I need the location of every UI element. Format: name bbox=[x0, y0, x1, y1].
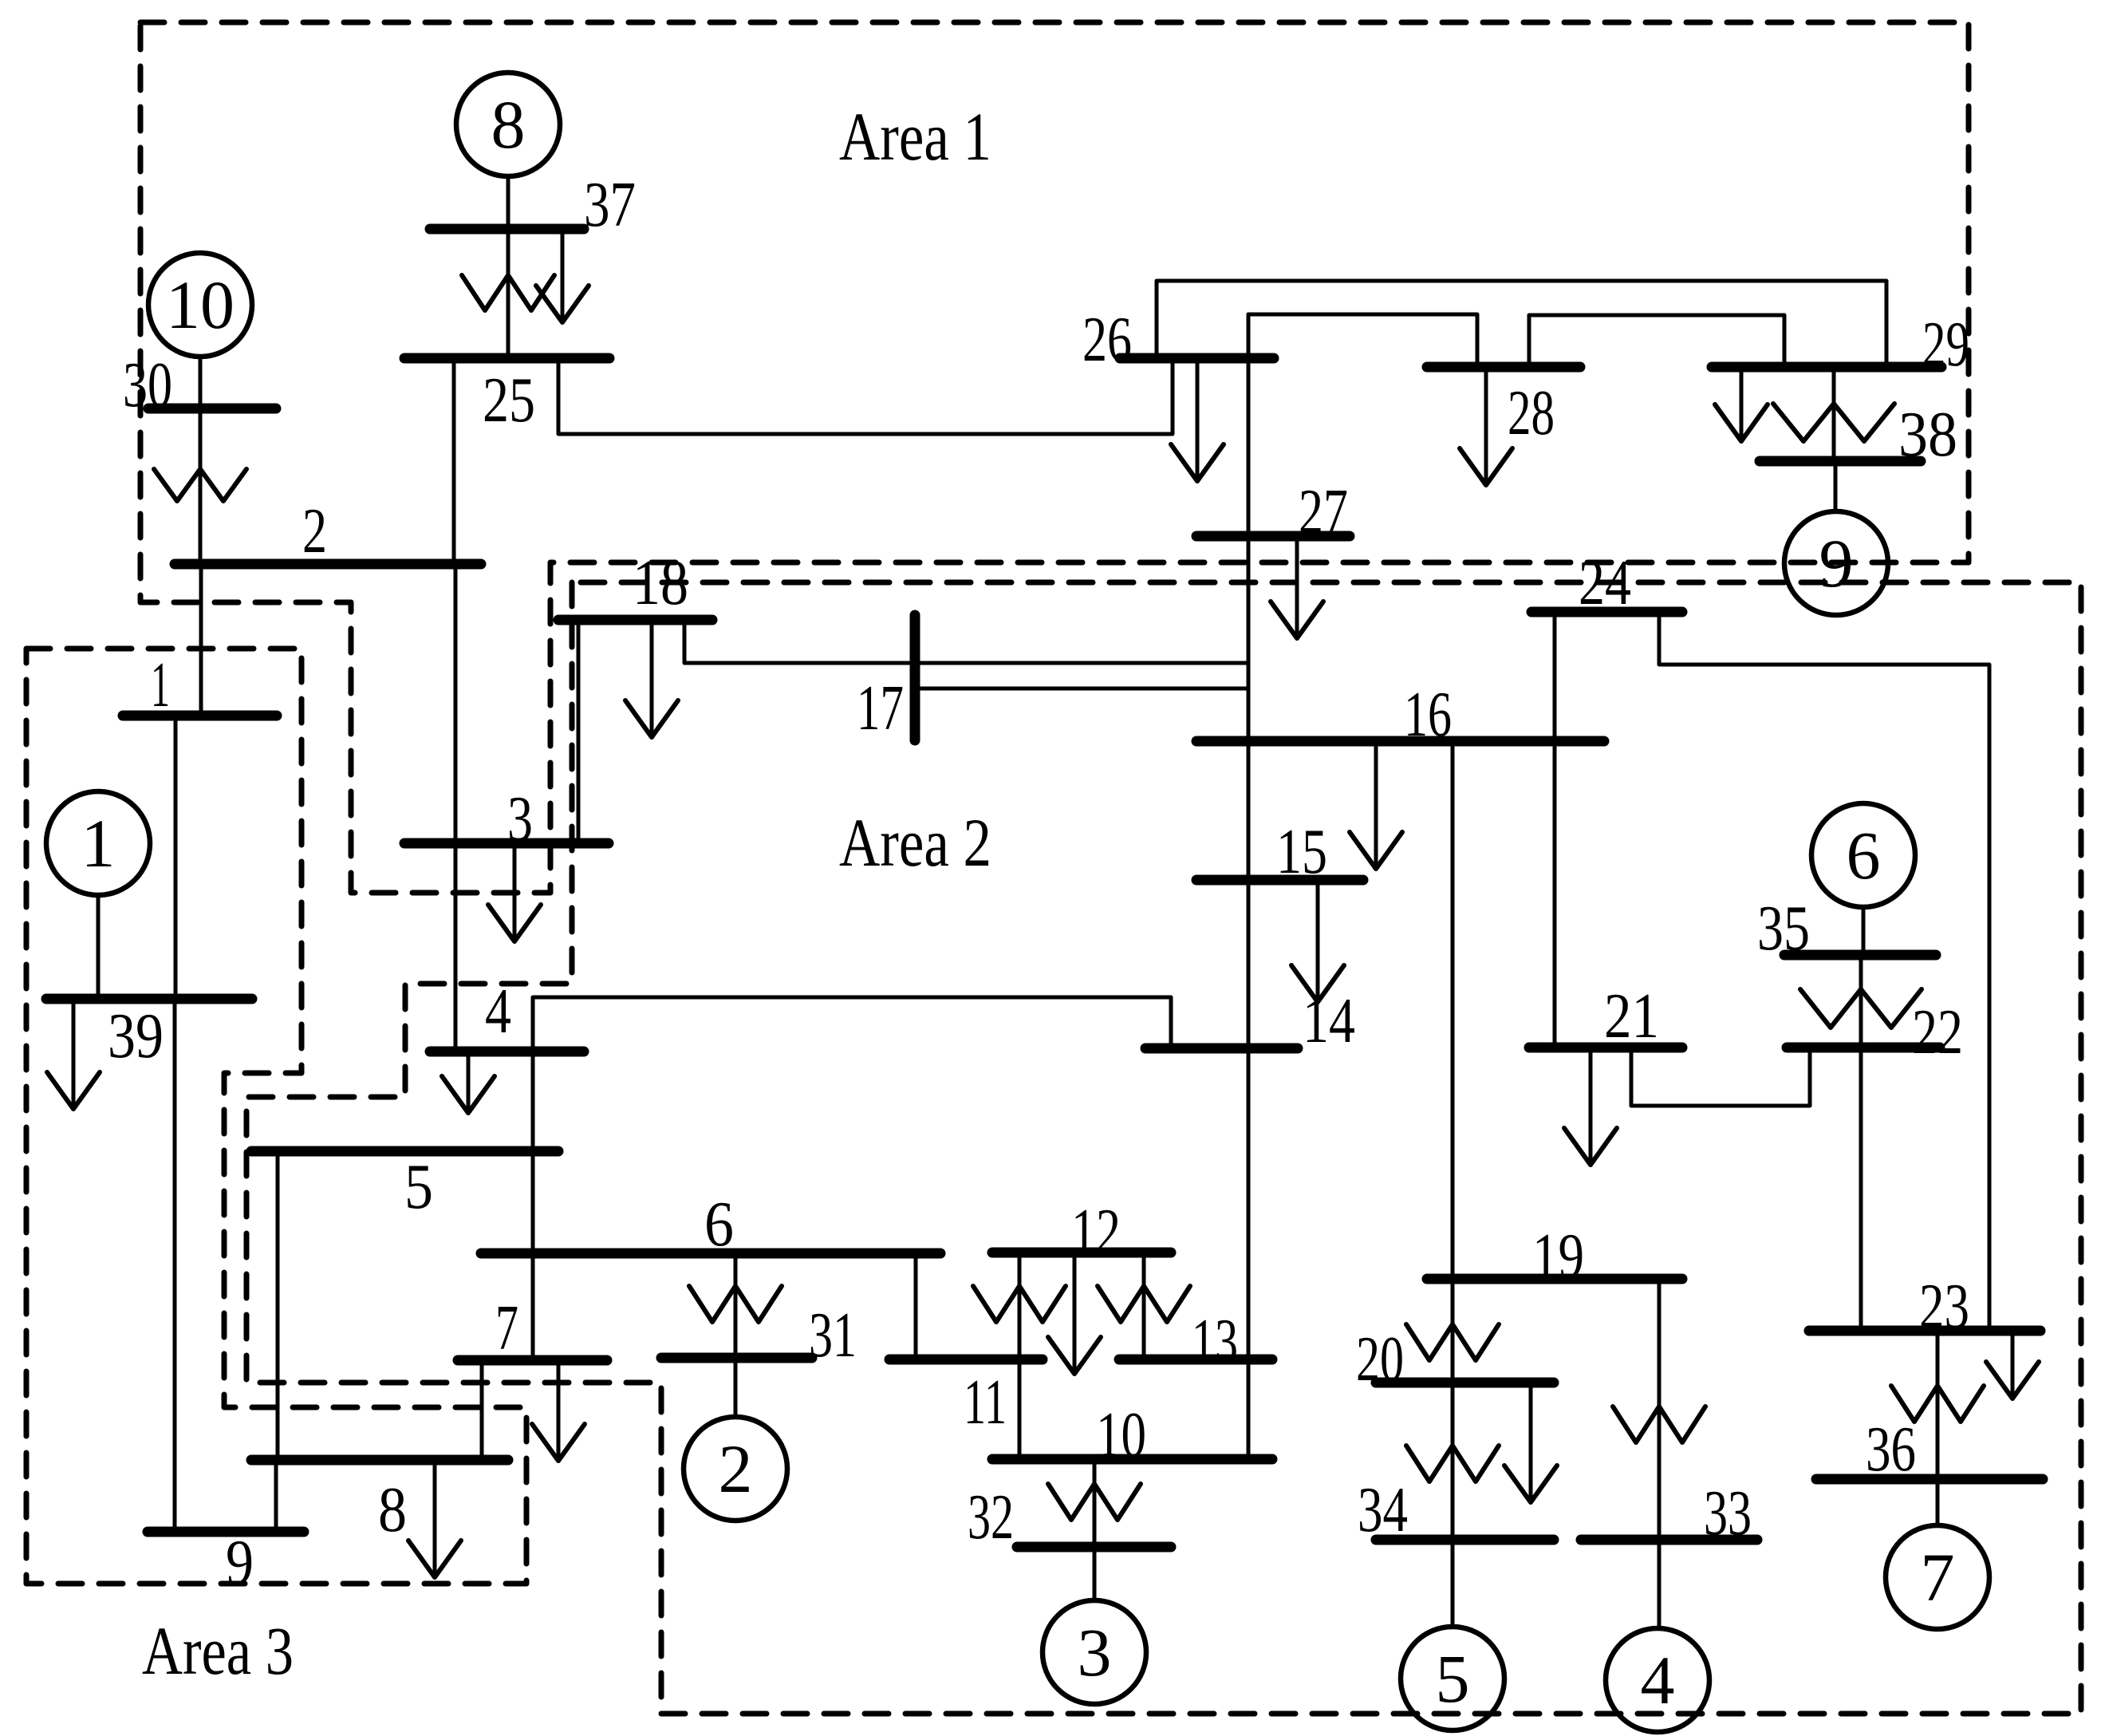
svg-text:5: 5 bbox=[1436, 1640, 1470, 1717]
svg-text:17: 17 bbox=[857, 673, 904, 744]
svg-text:6: 6 bbox=[1847, 817, 1881, 894]
svg-text:3: 3 bbox=[1078, 1614, 1112, 1691]
svg-text:21: 21 bbox=[1604, 981, 1659, 1051]
svg-text:7: 7 bbox=[1921, 1539, 1955, 1616]
svg-text:9: 9 bbox=[226, 1528, 254, 1598]
svg-text:20: 20 bbox=[1356, 1324, 1404, 1395]
svg-text:12: 12 bbox=[1071, 1197, 1121, 1267]
svg-text:11: 11 bbox=[964, 1367, 1007, 1438]
svg-text:34: 34 bbox=[1358, 1475, 1408, 1545]
svg-text:6: 6 bbox=[704, 1190, 734, 1260]
svg-text:Area 3: Area 3 bbox=[142, 1612, 294, 1689]
svg-text:10: 10 bbox=[1096, 1400, 1146, 1470]
svg-text:29: 29 bbox=[1922, 310, 1969, 380]
svg-text:22: 22 bbox=[1912, 997, 1963, 1067]
svg-text:8: 8 bbox=[491, 86, 526, 163]
svg-text:27: 27 bbox=[1299, 477, 1348, 547]
svg-text:9: 9 bbox=[1819, 525, 1854, 602]
svg-text:19: 19 bbox=[1532, 1221, 1584, 1292]
svg-text:37: 37 bbox=[584, 170, 636, 240]
svg-text:Area 1: Area 1 bbox=[839, 98, 991, 175]
svg-text:13: 13 bbox=[1192, 1307, 1238, 1377]
svg-text:15: 15 bbox=[1276, 817, 1327, 887]
svg-text:30: 30 bbox=[123, 350, 172, 420]
svg-text:Area 2: Area 2 bbox=[839, 804, 991, 881]
svg-text:1: 1 bbox=[81, 805, 116, 882]
svg-text:31: 31 bbox=[809, 1300, 857, 1371]
svg-text:5: 5 bbox=[404, 1152, 433, 1222]
svg-text:36: 36 bbox=[1866, 1414, 1916, 1485]
svg-text:3: 3 bbox=[507, 784, 533, 854]
svg-text:39: 39 bbox=[108, 1001, 164, 1071]
svg-text:25: 25 bbox=[483, 365, 535, 436]
svg-text:4: 4 bbox=[485, 977, 511, 1047]
svg-text:8: 8 bbox=[378, 1475, 407, 1545]
svg-text:14: 14 bbox=[1303, 986, 1355, 1056]
svg-text:38: 38 bbox=[1898, 400, 1957, 470]
svg-text:32: 32 bbox=[968, 1482, 1014, 1553]
svg-text:2: 2 bbox=[719, 1430, 753, 1507]
svg-text:33: 33 bbox=[1704, 1478, 1752, 1549]
svg-text:18: 18 bbox=[633, 548, 688, 618]
svg-text:28: 28 bbox=[1508, 378, 1555, 448]
svg-text:35: 35 bbox=[1757, 894, 1810, 964]
svg-text:23: 23 bbox=[1919, 1272, 1969, 1342]
svg-text:16: 16 bbox=[1404, 680, 1452, 750]
svg-text:24: 24 bbox=[1579, 548, 1631, 618]
svg-text:7: 7 bbox=[495, 1293, 518, 1363]
svg-text:10: 10 bbox=[166, 266, 235, 343]
svg-text:2: 2 bbox=[302, 496, 327, 566]
svg-text:4: 4 bbox=[1641, 1642, 1675, 1718]
svg-text:1: 1 bbox=[151, 650, 170, 720]
svg-text:26: 26 bbox=[1082, 305, 1132, 375]
